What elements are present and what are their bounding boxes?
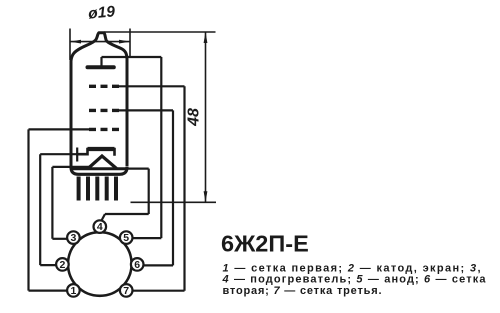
anode stub xyxy=(100,57,102,67)
heater right lead along stem xyxy=(126,168,149,170)
tube bottom outline xyxy=(71,167,127,174)
wire to pin 5 xyxy=(132,237,161,239)
grid 2 lead wire xyxy=(117,109,173,111)
heater left lead wire xyxy=(52,166,91,168)
heater filament xyxy=(88,156,117,169)
wire to pin 4 diagonal xyxy=(101,214,105,221)
base circle xyxy=(68,232,132,296)
svg-text:2: 2 xyxy=(59,259,65,271)
pin 2 circle xyxy=(56,258,69,271)
grid 3 dashed row xyxy=(89,85,119,88)
arrowhead bottom of 48 xyxy=(204,191,208,202)
svg-text:4: 4 xyxy=(97,221,103,233)
tube pin lead 4 xyxy=(105,177,109,201)
arrowhead left of ⌀19 xyxy=(70,40,81,44)
grid 1 dashed row xyxy=(89,128,119,131)
arrowhead top of 48 xyxy=(204,32,208,43)
wire grid3 vertical to pin 7 xyxy=(183,86,185,290)
pin 4 circle xyxy=(94,220,107,233)
wire to pin 4 horizontal xyxy=(105,213,149,215)
cathode lead tick xyxy=(76,148,78,162)
tube pin lead 1 xyxy=(77,177,81,201)
svg-text:7: 7 xyxy=(123,285,129,297)
svg-text:6Ж2П-Е: 6Ж2П-Е xyxy=(221,231,309,257)
wire to pin 3 xyxy=(52,238,67,240)
svg-text:5: 5 xyxy=(123,232,129,244)
extension line right of ⌀19 xyxy=(129,29,131,59)
svg-text:1 — сетка первая; 2 — катод, э: 1 — сетка первая; 2 — катод, экран; 3, xyxy=(223,262,481,274)
wire to pin 2 xyxy=(40,264,56,266)
tube pin lead 2 xyxy=(86,177,90,201)
wire grid1 vertical to pin 1 xyxy=(27,129,29,290)
pin 7 circle xyxy=(120,284,133,297)
grid 3 lead wire xyxy=(117,85,185,87)
extension line bottom of 48 dim xyxy=(131,201,217,203)
cathode xyxy=(76,149,115,156)
extension line top of 48 dim xyxy=(104,31,216,33)
cathode top bar xyxy=(88,147,115,151)
wire to pin 6 xyxy=(144,264,173,266)
tube stem line xyxy=(72,167,127,170)
arrowhead right of ⌀19 xyxy=(119,40,130,44)
svg-text:1: 1 xyxy=(70,285,76,297)
pin 5 circle xyxy=(120,231,133,244)
svg-text:ø19: ø19 xyxy=(88,3,116,22)
wire heater vertical to pin 4 xyxy=(148,169,150,214)
anode plate bar xyxy=(88,65,114,69)
anode lead wire xyxy=(102,56,162,58)
wire to pin 7 xyxy=(133,290,185,292)
dimension line 48 xyxy=(205,32,207,202)
grid 2 dashed row xyxy=(89,109,119,112)
wire cathode vertical to pin 2 xyxy=(39,154,41,265)
pin 1 circle xyxy=(67,284,80,297)
wire grid2 vertical to pin 6 xyxy=(172,110,174,265)
grid 1 lead wire to left xyxy=(29,128,91,130)
cathode lead wire xyxy=(40,153,77,155)
wire heater vertical to pin 3 xyxy=(51,167,53,239)
tube pin lead 5 xyxy=(114,177,118,201)
svg-text:4 — подогреватель; 5 — анод; 6: 4 — подогреватель; 5 — анод; 6 — сетка xyxy=(222,274,487,286)
svg-text:6: 6 xyxy=(134,259,140,271)
wire to pin 1 xyxy=(29,290,68,292)
svg-text:48: 48 xyxy=(186,108,203,127)
svg-text:3: 3 xyxy=(70,232,76,244)
tube pin lead 3 xyxy=(95,177,99,201)
pin 6 circle xyxy=(131,258,144,271)
pin 3 circle xyxy=(67,231,80,244)
dimension line ⌀19 xyxy=(70,41,130,43)
svg-text:вторая; 7 — сетка третья.: вторая; 7 — сетка третья. xyxy=(223,285,382,297)
tube envelope outline xyxy=(71,33,127,167)
wire anode vertical to pin 5 xyxy=(160,57,162,238)
extension line left of ⌀19 xyxy=(69,29,71,61)
